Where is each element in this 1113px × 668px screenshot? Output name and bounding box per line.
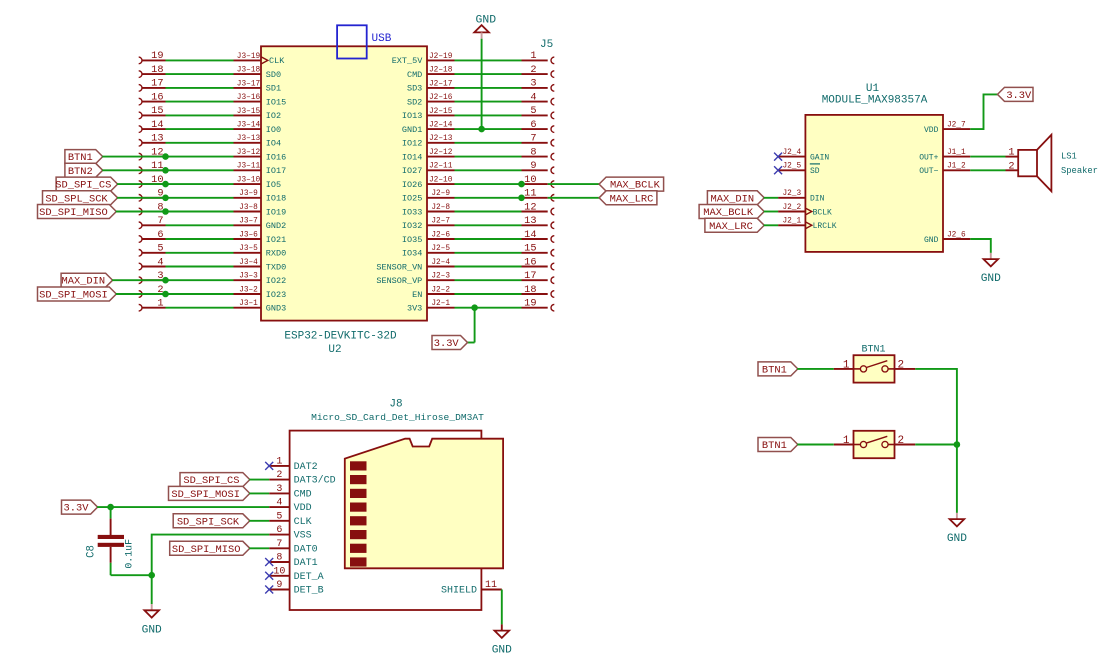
IC U2 pin J3-19 CLK (left, row 1) bbox=[234, 53, 286, 66]
global label BTN1 (switch 2) bbox=[758, 438, 798, 453]
connector J5 reference bbox=[540, 39, 553, 51]
connector pin 16 (left column) bbox=[139, 91, 166, 105]
power symbol GND (below C8) bbox=[142, 604, 162, 636]
connector pin 7 (left column) bbox=[139, 215, 166, 229]
text BTN1 name above switch 1 bbox=[861, 345, 885, 356]
svg-text:IO16: IO16 bbox=[266, 152, 286, 162]
svg-text:GND: GND bbox=[492, 645, 512, 657]
svg-text:VSS: VSS bbox=[294, 531, 312, 542]
svg-text:J2_6: J2_6 bbox=[947, 231, 966, 239]
svg-text:ESP32-DEVKITC-32D: ESP32-DEVKITC-32D bbox=[284, 331, 397, 343]
svg-text:BTN1: BTN1 bbox=[762, 440, 787, 452]
svg-text:VDD: VDD bbox=[294, 503, 312, 514]
IC U2 pin J2-12 IO14 (right, row 8) bbox=[402, 149, 455, 162]
switch SW1 pin 2 bbox=[895, 359, 916, 371]
connector J8 pin 7 DAT0 bbox=[269, 539, 317, 555]
svg-text:SD_SPI_CS: SD_SPI_CS bbox=[55, 180, 111, 192]
power symbol GND (below switches) bbox=[947, 513, 967, 545]
junction J5 pin 10 bbox=[518, 181, 525, 188]
svg-text:J2–16: J2–16 bbox=[429, 94, 453, 102]
IC U2 pin J3-2 IO23 (left, row 18) bbox=[234, 286, 287, 299]
svg-text:SD_SPI_MOSI: SD_SPI_MOSI bbox=[39, 290, 108, 302]
svg-text:DIN: DIN bbox=[810, 195, 825, 204]
svg-text:16: 16 bbox=[524, 256, 536, 268]
svg-text:3.3V: 3.3V bbox=[64, 503, 90, 515]
switch SW2 pin 2 bbox=[895, 435, 916, 447]
svg-text:J2–1: J2–1 bbox=[431, 300, 450, 308]
IC U2 pin J2-15 IO13 (right, row 5) bbox=[402, 108, 455, 121]
connector pin 5 (left column) bbox=[139, 243, 166, 257]
svg-text:CLK: CLK bbox=[269, 56, 285, 66]
svg-text:11: 11 bbox=[485, 580, 497, 591]
wire net row 1 (left conn to U2) bbox=[166, 307, 234, 309]
svg-text:2: 2 bbox=[530, 64, 536, 76]
global label SD_SPI_SCK (at J8) bbox=[173, 514, 250, 529]
svg-text:SHIELD: SHIELD bbox=[441, 586, 477, 597]
wire net row (U2 to J5 pin 1) bbox=[455, 59, 522, 61]
wire net row 5 (left conn to U2) bbox=[166, 252, 234, 254]
wire SD_SPI_SCK to J8 bbox=[249, 520, 269, 522]
svg-text:IO15: IO15 bbox=[266, 97, 286, 107]
wire net row 18 (left conn to U2) bbox=[166, 73, 234, 75]
wire MAX_DIN to U1 bbox=[764, 197, 778, 199]
svg-text:17: 17 bbox=[524, 270, 536, 282]
switch SW1 BTN1 body bbox=[854, 355, 895, 382]
connector pin 17 (left column) bbox=[139, 78, 166, 92]
svg-text:J2_2: J2_2 bbox=[782, 204, 801, 212]
svg-text:0.1uF: 0.1uF bbox=[124, 539, 135, 569]
wire net row (U2 to J5 pin 19) bbox=[455, 307, 522, 309]
connector J8 pin 6 VSS bbox=[269, 525, 311, 541]
connector pin 14 (left column) bbox=[139, 119, 166, 132]
connector pin 11 (left column) bbox=[139, 160, 166, 174]
IC U1 MODULE_MAX98357A body bbox=[805, 115, 943, 252]
wire net row (U2 to J5 pin 14) bbox=[455, 238, 522, 240]
svg-text:11: 11 bbox=[524, 188, 536, 200]
connector J5 pin 6 bbox=[522, 119, 555, 132]
J8 card contact pad (DAT2 row) bbox=[350, 461, 367, 470]
svg-text:3V3: 3V3 bbox=[407, 304, 422, 314]
wire BTN1 label to switch 2 bbox=[797, 444, 833, 446]
wire net row (U2 to J5 pin 11) bbox=[455, 197, 522, 199]
IC U2 pin J2-10 IO26 (right, row 10) bbox=[402, 177, 455, 190]
svg-text:MAX_DIN: MAX_DIN bbox=[710, 193, 754, 205]
global label SD_SPI_MOSI (at J8) bbox=[169, 486, 250, 501]
svg-text:SD_SPI_CS: SD_SPI_CS bbox=[183, 475, 239, 487]
svg-text:15: 15 bbox=[524, 243, 536, 255]
connector pin 9 (left column) bbox=[139, 188, 166, 202]
wire net row (U2 to J5 pin 7) bbox=[455, 142, 522, 144]
connector J5 pin 2 bbox=[522, 64, 555, 78]
wire SD_SPL_SCK to connector pin 9 bbox=[117, 197, 165, 199]
svg-text:J2–10: J2–10 bbox=[429, 177, 453, 185]
IC U1 pin J1_2 OUT- bbox=[919, 163, 970, 176]
svg-text:J8: J8 bbox=[389, 399, 402, 411]
svg-text:IO33: IO33 bbox=[402, 207, 422, 217]
svg-text:SD_SPI_SCK: SD_SPI_SCK bbox=[177, 516, 240, 528]
svg-text:CLK: CLK bbox=[294, 517, 312, 528]
wire net row 4 (left conn to U2) bbox=[166, 266, 234, 268]
svg-text:J2_1: J2_1 bbox=[782, 218, 801, 226]
svg-text:IO5: IO5 bbox=[266, 180, 281, 190]
wire SD_SPI_MOSI to connector pin 2 bbox=[116, 293, 166, 295]
switch SW1 pin 1 bbox=[834, 359, 854, 371]
wire net row 11 (left conn to U2) bbox=[166, 169, 234, 171]
connector J5 pin 9 bbox=[522, 160, 555, 174]
junction node MAX_DIN bbox=[162, 277, 169, 284]
wire net row 10 (left conn to U2) bbox=[166, 183, 234, 185]
svg-text:IO19: IO19 bbox=[266, 207, 286, 217]
wire net row 2 (left conn to U2) bbox=[166, 293, 234, 295]
svg-text:8: 8 bbox=[276, 553, 282, 564]
IC U2 pin J2-3 SENSOR_VP (right, row 17) bbox=[376, 273, 454, 286]
svg-text:13: 13 bbox=[524, 215, 536, 227]
junction node BTN2 bbox=[162, 167, 169, 174]
connector J5 pin 18 bbox=[522, 284, 555, 298]
wire net row 12 (left conn to U2) bbox=[166, 156, 234, 158]
svg-text:IO22: IO22 bbox=[266, 276, 286, 286]
svg-text:MAX_LRC: MAX_LRC bbox=[610, 193, 654, 205]
connector J5 pin 14 bbox=[522, 229, 555, 243]
IC U2 pin J3-9 IO18 (left, row 11) bbox=[234, 190, 287, 203]
svg-text:J1_2: J1_2 bbox=[947, 163, 966, 171]
svg-text:EXT_5V: EXT_5V bbox=[392, 56, 424, 66]
svg-text:1: 1 bbox=[157, 298, 163, 310]
IC U1 pin J2_2 BCLK bbox=[778, 204, 832, 217]
IC U2 pin J2-18 CMD (right, row 2) bbox=[407, 67, 455, 80]
svg-text:5: 5 bbox=[157, 243, 163, 255]
junction node SD_SPI_MISO bbox=[162, 208, 169, 215]
svg-text:LS1: LS1 bbox=[1061, 152, 1077, 162]
svg-text:IO25: IO25 bbox=[402, 194, 422, 204]
wire SD_SPI_CS to connector pin 10 bbox=[117, 183, 165, 185]
svg-text:J3–4: J3–4 bbox=[239, 259, 258, 267]
svg-text:3.3V: 3.3V bbox=[434, 338, 460, 350]
connector J5 pin 4 bbox=[522, 91, 555, 105]
svg-text:USB: USB bbox=[372, 33, 392, 45]
svg-text:J2–11: J2–11 bbox=[429, 163, 453, 171]
connector J5 pin 11 bbox=[522, 188, 555, 202]
global label BTN1 (switch 1) bbox=[758, 362, 798, 377]
power symbol GND (below U1) bbox=[981, 253, 1001, 285]
svg-text:C8: C8 bbox=[85, 545, 97, 558]
IC U2 pin J3-11 IO17 (left, row 9) bbox=[234, 163, 287, 176]
IC U2 pin J2-13 IO12 (right, row 7) bbox=[402, 135, 455, 148]
IC U2 pin J2-16 SD2 (right, row 4) bbox=[407, 94, 455, 107]
wire to MAX_LRC bbox=[548, 197, 600, 199]
svg-text:14: 14 bbox=[524, 229, 536, 241]
svg-text:IO21: IO21 bbox=[266, 235, 286, 245]
IC U1 pin J2_1 LRCLK bbox=[778, 218, 837, 231]
IC U2 pin J3-17 SD1 (left, row 3) bbox=[234, 80, 282, 93]
svg-text:SD_SPI_MISO: SD_SPI_MISO bbox=[39, 207, 108, 219]
IC U2 pin J3-18 SD0 (left, row 2) bbox=[234, 67, 282, 80]
connector pin 4 (left column) bbox=[139, 256, 166, 270]
svg-text:OUT−: OUT− bbox=[919, 167, 938, 176]
svg-text:J3–10: J3–10 bbox=[237, 177, 261, 185]
svg-text:13: 13 bbox=[151, 133, 163, 145]
IC U2 pin J2-4 SENSOR_VN (right, row 16) bbox=[376, 259, 454, 272]
IC U2 pin J2-8 IO33 (right, row 12) bbox=[402, 204, 455, 217]
J8 card contact pad (DAT1 row) bbox=[350, 557, 367, 566]
svg-text:IO34: IO34 bbox=[402, 249, 422, 259]
svg-text:BTN1: BTN1 bbox=[68, 152, 93, 164]
svg-text:RXD0: RXD0 bbox=[266, 249, 286, 259]
svg-text:1: 1 bbox=[530, 50, 536, 62]
IC U2 pin J2-9 IO25 (right, row 11) bbox=[402, 190, 455, 203]
IC U2 pin J2-2 EN (right, row 18) bbox=[412, 286, 454, 299]
svg-text:SD0: SD0 bbox=[266, 70, 281, 80]
svg-text:MAX_LRC: MAX_LRC bbox=[709, 221, 753, 233]
svg-text:J3–5: J3–5 bbox=[239, 245, 258, 253]
svg-text:2: 2 bbox=[898, 435, 905, 447]
svg-text:SD1: SD1 bbox=[266, 84, 281, 94]
J8 card contact pad (CLK row) bbox=[350, 516, 367, 525]
svg-text:MODULE_MAX98357A: MODULE_MAX98357A bbox=[822, 95, 928, 107]
svg-text:J2_4: J2_4 bbox=[782, 149, 801, 157]
svg-text:IO26: IO26 bbox=[402, 180, 422, 190]
svg-text:J2_7: J2_7 bbox=[947, 122, 966, 130]
wire C8 bottom bbox=[111, 563, 152, 575]
svg-text:IO13: IO13 bbox=[402, 111, 422, 121]
svg-text:J3–8: J3–8 bbox=[239, 204, 258, 212]
svg-text:SD2: SD2 bbox=[407, 97, 422, 107]
IC U2 pin J3-5 RXD0 (left, row 15) bbox=[234, 245, 287, 258]
connector J5 pin 19 bbox=[522, 298, 555, 312]
wire SD_SPI_MISO to J8 bbox=[249, 547, 269, 549]
wire net row (U2 to J5 pin 6) bbox=[455, 128, 522, 130]
svg-text:7: 7 bbox=[276, 539, 282, 550]
svg-text:CMD: CMD bbox=[407, 70, 422, 80]
wire net row 8 (left conn to U2) bbox=[166, 211, 234, 213]
no-connect X on J8 DET_B bbox=[265, 586, 273, 594]
svg-text:IO27: IO27 bbox=[402, 166, 422, 176]
svg-text:4: 4 bbox=[530, 91, 536, 103]
svg-text:IO17: IO17 bbox=[266, 166, 286, 176]
wire net row (U2 to J5 pin 13) bbox=[455, 224, 522, 226]
svg-text:1: 1 bbox=[1008, 147, 1014, 159]
svg-text:J2–2: J2–2 bbox=[431, 286, 450, 294]
power symbol GND (below J8 SHIELD) bbox=[492, 624, 512, 656]
global label MAX_DIN (at U1) bbox=[707, 191, 764, 206]
connector J5 pin 10 bbox=[522, 174, 555, 188]
svg-text:10: 10 bbox=[273, 566, 285, 577]
svg-text:IO35: IO35 bbox=[402, 235, 422, 245]
wire net row (U2 to J5 pin 9) bbox=[455, 169, 522, 171]
connector pin 8 (left column) bbox=[139, 201, 166, 215]
wire net row 3 (left conn to U2) bbox=[166, 279, 234, 281]
connector pin 15 (left column) bbox=[139, 105, 166, 119]
svg-text:IO14: IO14 bbox=[402, 152, 422, 162]
no-connect X on J8 DET_A bbox=[265, 572, 273, 580]
wire net row 14 (left conn to U2) bbox=[166, 128, 234, 130]
global label SD_SPI_MOSI bbox=[38, 287, 117, 302]
J8 SD-card shape bbox=[345, 439, 503, 569]
svg-text:GND3: GND3 bbox=[266, 304, 286, 314]
wire net row 17 (left conn to U2) bbox=[166, 87, 234, 89]
svg-text:5: 5 bbox=[276, 511, 282, 522]
junction C8 / VSS / GND bbox=[148, 572, 155, 579]
svg-text:4: 4 bbox=[276, 498, 282, 509]
IC U2 pin J2-5 IO34 (right, row 15) bbox=[402, 245, 455, 258]
wire net row (U2 to J5 pin 12) bbox=[455, 211, 522, 213]
svg-text:1: 1 bbox=[276, 457, 282, 468]
IC U2 pin J3-10 IO5 (left, row 10) bbox=[234, 177, 282, 190]
IC U1 pin J2_5 SD bbox=[778, 163, 820, 176]
wire MAX_LRC to U1 bbox=[764, 224, 778, 226]
svg-text:IO23: IO23 bbox=[266, 290, 286, 300]
svg-text:J3–6: J3–6 bbox=[239, 231, 258, 239]
wire net row 13 (left conn to U2) bbox=[166, 142, 234, 144]
wire net row (U2 to J5 pin 15) bbox=[455, 252, 522, 254]
connector J8 pin 8 DAT1 bbox=[269, 553, 317, 569]
wire C8 top bbox=[110, 507, 112, 518]
IC U2 pin J3-16 IO15 (left, row 4) bbox=[234, 94, 287, 107]
svg-text:6: 6 bbox=[530, 119, 536, 131]
IC U2 pin J3-14 IO0 (left, row 6) bbox=[234, 122, 282, 135]
svg-text:MAX_DIN: MAX_DIN bbox=[61, 276, 105, 288]
wire net row (U2 to J5 pin 18) bbox=[455, 293, 522, 295]
connector pin 12 (left column) bbox=[139, 146, 166, 160]
capacitor C8 0.1uF bbox=[98, 519, 124, 563]
IC U1 pin J1_1 OUT+ bbox=[919, 149, 970, 162]
junction node SD_SPI_MOSI bbox=[162, 291, 169, 298]
svg-text:J3–12: J3–12 bbox=[237, 149, 261, 157]
svg-text:17: 17 bbox=[151, 78, 163, 90]
global label SD_SPI_MISO (at J8) bbox=[170, 541, 250, 556]
svg-text:J3–9: J3–9 bbox=[239, 190, 258, 198]
text 0.1uF value (rotated) bbox=[124, 539, 135, 569]
junction node SD_SPI_CS bbox=[162, 181, 169, 188]
global label SD_SPI_CS (at J8) bbox=[180, 473, 250, 488]
connector pin 3 (left column) bbox=[139, 270, 166, 284]
wire switch 2 to GND net bbox=[915, 444, 957, 446]
J8 card contact pad (DAT3/CD row) bbox=[350, 475, 367, 484]
svg-text:GND: GND bbox=[924, 236, 939, 245]
text U2 reference bbox=[328, 344, 341, 356]
svg-text:GAIN: GAIN bbox=[810, 153, 829, 162]
svg-text:19: 19 bbox=[524, 298, 536, 310]
switch SW2 BTN1 body bbox=[854, 431, 895, 458]
wire BTN1 label to switch 1 bbox=[797, 368, 833, 370]
IC U1 pin J2_7 VDD bbox=[924, 122, 970, 135]
svg-text:GND: GND bbox=[947, 533, 967, 545]
wire net row (U2 to J5 pin 8) bbox=[455, 156, 522, 158]
J8 card contact pad (VSS row) bbox=[350, 530, 367, 539]
svg-text:IO32: IO32 bbox=[402, 221, 422, 231]
wire net row (U2 to J5 pin 3) bbox=[455, 87, 522, 89]
switch SW2 pin 1 bbox=[834, 435, 854, 447]
junction GND net / row 6 bbox=[478, 126, 485, 133]
wire net row (U2 to J5 pin 16) bbox=[455, 266, 522, 268]
wire net row 9 (left conn to U2) bbox=[166, 197, 234, 199]
svg-text:J2_3: J2_3 bbox=[782, 190, 801, 198]
wire net row 19 (left conn to U2) bbox=[166, 59, 234, 61]
svg-text:OUT+: OUT+ bbox=[919, 153, 938, 162]
junction row 19 / 3.3V branch bbox=[471, 304, 478, 311]
svg-text:J3–18: J3–18 bbox=[237, 67, 261, 75]
wire net row (U2 to J5 pin 4) bbox=[455, 101, 522, 103]
svg-text:J3–15: J3–15 bbox=[237, 108, 261, 116]
svg-text:VDD: VDD bbox=[924, 126, 939, 135]
text U1 value MODULE_MAX98357A bbox=[822, 95, 928, 107]
svg-text:6: 6 bbox=[157, 229, 163, 241]
text J8 reference bbox=[389, 399, 402, 411]
svg-text:DAT3/CD: DAT3/CD bbox=[294, 475, 336, 487]
svg-text:J2_5: J2_5 bbox=[782, 163, 801, 171]
svg-text:U2: U2 bbox=[328, 344, 341, 356]
svg-text:J2–7: J2–7 bbox=[431, 218, 450, 226]
global label SD_SPI_MISO bbox=[38, 205, 117, 220]
svg-text:2: 2 bbox=[1008, 160, 1014, 172]
svg-text:IO18: IO18 bbox=[266, 194, 286, 204]
svg-text:SENSOR_VP: SENSOR_VP bbox=[376, 276, 422, 286]
svg-text:BTN1: BTN1 bbox=[762, 364, 787, 376]
connector J5 pin 3 bbox=[522, 78, 555, 92]
IC U2 pin J3-15 IO2 (left, row 5) bbox=[234, 108, 282, 121]
svg-text:2: 2 bbox=[276, 470, 282, 481]
svg-text:IO12: IO12 bbox=[402, 139, 422, 149]
svg-text:J5: J5 bbox=[540, 39, 553, 51]
IC U2 ESP32-DEVKITC-32D body bbox=[261, 46, 427, 320]
connector J8 pin 4 VDD bbox=[269, 498, 311, 514]
svg-text:7: 7 bbox=[530, 133, 536, 145]
svg-text:6: 6 bbox=[276, 525, 282, 536]
IC U1 pin J2_4 GAIN bbox=[778, 149, 829, 162]
connector J8 pin 2 DAT3/CD bbox=[269, 470, 335, 486]
IC U2 pin J3-4 TXD0 (left, row 16) bbox=[234, 259, 287, 272]
wire MAX_DIN to connector pin 3 bbox=[112, 279, 165, 281]
wire MAX_BCLK to U1 bbox=[764, 211, 778, 213]
global label 3.3V (below U2) bbox=[432, 336, 468, 351]
IC U2 pin J3-1 GND3 (left, row 19) bbox=[234, 300, 287, 313]
svg-text:4: 4 bbox=[157, 256, 163, 268]
IC U2 pin J2-7 IO32 (right, row 13) bbox=[402, 218, 455, 231]
svg-text:GND: GND bbox=[142, 624, 162, 636]
wire U1 VDD to 3.3V bbox=[970, 94, 998, 129]
speaker LS1 pin 2 bbox=[1006, 160, 1019, 172]
svg-text:J3–16: J3–16 bbox=[237, 94, 261, 102]
connector J8 pin 11 SHIELD bbox=[441, 580, 502, 596]
svg-text:J2–6: J2–6 bbox=[431, 231, 450, 239]
IC U2 pin J3-8 IO19 (left, row 12) bbox=[234, 204, 287, 217]
speaker LS1 pin 1 bbox=[1006, 147, 1019, 159]
svg-text:J2–12: J2–12 bbox=[429, 149, 453, 157]
svg-text:3: 3 bbox=[276, 484, 282, 495]
global label SD_SPI_CS bbox=[55, 177, 117, 192]
connector pin 6 (left column) bbox=[139, 229, 166, 243]
svg-text:Micro_SD_Card_Det_Hirose_DM3AT: Micro_SD_Card_Det_Hirose_DM3AT bbox=[311, 412, 484, 423]
IC U2 pin J3-12 IO16 (left, row 8) bbox=[234, 149, 287, 162]
svg-text:BTN2: BTN2 bbox=[68, 166, 93, 178]
graphic USB connector box (blue) bbox=[337, 25, 367, 58]
svg-text:J3–19: J3–19 bbox=[237, 53, 261, 61]
wire net row (U2 to J5 pin 17) bbox=[455, 279, 522, 281]
svg-text:GND: GND bbox=[981, 273, 1001, 285]
no-connect X on U1 GAIN bbox=[774, 153, 782, 161]
wire BTN1 to connector pin 12 bbox=[102, 156, 165, 158]
svg-text:DAT0: DAT0 bbox=[294, 544, 318, 555]
connector J5 pin 8 bbox=[522, 146, 555, 160]
no-connect X on J8 DAT2 bbox=[265, 462, 273, 470]
IC U1 pin J2_3 DIN bbox=[778, 190, 825, 203]
connector pin 13 (left column) bbox=[139, 133, 166, 147]
svg-text:J2–14: J2–14 bbox=[429, 122, 453, 130]
IC U2 pin J3-13 IO4 (left, row 7) bbox=[234, 135, 282, 148]
svg-text:U1: U1 bbox=[866, 83, 880, 95]
J8 card contact pad (DAT0 row) bbox=[350, 544, 367, 553]
junction node BTN1 bbox=[162, 153, 169, 160]
